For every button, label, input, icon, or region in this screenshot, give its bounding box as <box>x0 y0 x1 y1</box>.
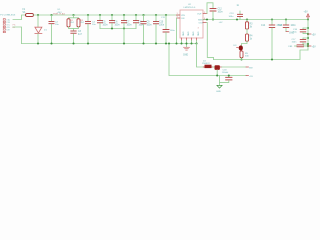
inductor L1 <box>215 65 220 70</box>
resistor R1 <box>67 19 70 27</box>
wire gnd rail drop to bottom <box>169 44 246 76</box>
diode D2 <box>203 66 213 68</box>
wire pin1 to fuse <box>13 15 25 20</box>
svg-text:100n: 100n <box>115 25 121 27</box>
net label tap 2 <box>308 45 311 47</box>
capacitor C14 <box>271 20 273 25</box>
node C10 bottom junction <box>155 42 157 44</box>
wire D2 anode <box>197 44 205 68</box>
svg-text:100n: 100n <box>147 25 153 27</box>
net label output rail <box>246 75 249 77</box>
node FB rail crossing junction <box>206 18 208 20</box>
node C17 tap junction <box>307 37 309 39</box>
node C16 bottom junction <box>307 33 309 35</box>
svg-text:OUT: OUT <box>197 13 202 15</box>
node C4 top junction <box>87 14 89 16</box>
wire to D1 <box>37 15 39 27</box>
+5V vertical wire <box>307 20 309 51</box>
wires GND pins to rail <box>182 41 197 44</box>
IC U2 pin FB <box>203 22 207 24</box>
connector P1 pin 3 <box>3 24 15 27</box>
connector P1 pin 4 <box>3 26 15 29</box>
svg-text:100n: 100n <box>292 41 298 43</box>
wire resistor pair join <box>69 27 79 31</box>
connector P1 pin 2 <box>3 21 10 24</box>
svg-text:C10: C10 <box>159 22 164 24</box>
node +5V rail junction <box>307 18 309 20</box>
node R pair top junction <box>72 14 74 16</box>
node C8 top junction <box>135 14 137 16</box>
node collector junctions <box>111 27 113 29</box>
svg-text:100uH: 100uH <box>222 72 229 74</box>
capacitor C2 <box>51 15 53 21</box>
node C4 bottom junction <box>87 42 89 44</box>
diode D1 <box>35 27 42 33</box>
capacitor C15 <box>285 20 287 25</box>
node C5 top junction <box>99 14 101 16</box>
ground symbol under rail <box>186 44 188 48</box>
capacitor C13 above rail <box>239 11 241 20</box>
node fuse-D1 junction <box>37 14 39 16</box>
svg-text:100n: 100n <box>218 12 224 14</box>
connector P1 pin 6 <box>3 31 5 32</box>
node R5 gnd junction <box>240 58 242 60</box>
fuse F1 <box>26 14 34 17</box>
svg-text:PWR_FLAG: PWR_FLAG <box>53 13 65 16</box>
node C13 rail junction <box>236 18 238 20</box>
capacitor C12 <box>210 9 216 11</box>
svg-text:5 E: 5 E <box>6 30 10 32</box>
node C14 rail junction <box>271 18 273 20</box>
svg-text:C15: C15 <box>278 25 283 27</box>
capacitor C4 <box>87 15 89 21</box>
node R3 rail junction <box>246 18 248 20</box>
node C12 rail junction <box>212 18 214 20</box>
node C3 bottom junction <box>72 42 74 44</box>
wire D1 to ground rail <box>37 34 39 44</box>
svg-text:5A: 5A <box>23 11 26 14</box>
wire boost cap loop <box>207 3 213 14</box>
wire to R3 <box>246 20 248 23</box>
svg-text:+5V: +5V <box>219 22 223 24</box>
svg-text:VIN: VIN <box>181 15 185 17</box>
node C16 tap junction <box>307 27 309 29</box>
node D1 ground junction <box>37 42 39 44</box>
svg-text:C12: C12 <box>218 9 223 11</box>
capacitor C17 <box>303 37 308 40</box>
node C9 bottom junction <box>142 42 144 44</box>
svg-text:100n: 100n <box>291 25 297 27</box>
IC U2 bottom pins GND <box>182 38 197 41</box>
capacitor C3 <box>71 31 76 33</box>
wire ON/OFF to ground <box>176 18 178 44</box>
capacitor C8 <box>135 15 137 20</box>
output ground rail y=59.5 <box>214 50 309 60</box>
svg-text:C14: C14 <box>261 25 266 27</box>
svg-text:ON: ON <box>181 18 185 20</box>
capacitor C9 <box>143 15 145 21</box>
wire switch node to net label <box>222 66 246 68</box>
resistor R5 <box>240 51 243 58</box>
node GND pin junctions <box>180 42 182 44</box>
wire cap collector <box>100 28 136 30</box>
node C7 top junction <box>123 14 125 16</box>
node C9 top junction <box>142 14 144 16</box>
node ON/OFF ground junction <box>175 42 177 44</box>
connector P1 pin 5 <box>3 29 10 32</box>
output rail wire y=19.5 <box>203 19 308 21</box>
resistor R4 <box>246 34 249 41</box>
ground branch <box>219 76 221 86</box>
wire R4 to LED <box>242 41 248 46</box>
svg-text:GND: GND <box>196 32 198 37</box>
node C11 bottom junction <box>165 42 167 44</box>
ground symbol bottom <box>217 85 222 88</box>
connector P1 pin 1 <box>3 19 10 22</box>
svg-text:100n: 100n <box>103 25 109 27</box>
svg-text:+5V: +5V <box>312 47 317 49</box>
node C17 bottom junction <box>307 43 309 45</box>
svg-text:GND: GND <box>186 32 188 37</box>
wire pin4 to ground rail <box>13 27 22 44</box>
IC U2 body <box>180 10 203 38</box>
svg-text:GND: GND <box>191 32 193 37</box>
node drop junction <box>168 42 170 44</box>
input rail wire y=15 <box>34 14 181 16</box>
LED D3 <box>239 45 243 50</box>
svg-text:100n: 100n <box>159 25 165 27</box>
node L1 rail junction <box>216 74 218 76</box>
svg-text:GND: GND <box>216 91 221 93</box>
svg-text:LM2576-5.0: LM2576-5.0 <box>184 7 196 9</box>
svg-text:GND: GND <box>181 32 183 37</box>
svg-text:100u: 100u <box>170 30 176 32</box>
svg-text:100n: 100n <box>229 16 235 18</box>
node C15 rail junction <box>285 18 287 20</box>
IC U2 pin ON/OFF <box>177 17 181 19</box>
net label GND stub <box>286 31 289 33</box>
net label mid <box>246 66 249 68</box>
resistor R3 <box>246 22 249 29</box>
IC U2 pin VIN <box>177 14 181 16</box>
svg-text:+5V: +5V <box>304 12 309 14</box>
capacitor C5 <box>99 15 101 20</box>
node C10 top junction <box>155 14 157 16</box>
node C2 bottom junction <box>50 42 52 44</box>
node C11 top junction <box>165 14 167 16</box>
wire resistor pair split <box>69 15 79 19</box>
wire R5 to gnd rail <box>241 58 243 60</box>
capacitor C16 <box>303 27 308 30</box>
node collector ground junction <box>123 42 125 44</box>
svg-text:100n: 100n <box>127 25 133 27</box>
capacitor C10 <box>155 15 157 21</box>
svg-text:SNS: SNS <box>198 19 203 21</box>
capacitor C11 <box>165 15 167 29</box>
capacitor C18 <box>228 76 230 77</box>
svg-text:+5V: +5V <box>312 35 317 37</box>
IC U2 pin OUT2 <box>203 19 206 21</box>
wire OUT drop to switch node <box>207 23 214 60</box>
node C6 top junction <box>111 14 113 16</box>
+5V power flag <box>307 17 309 20</box>
capacitor C6 <box>111 15 113 20</box>
wire R3-R4 <box>246 29 248 34</box>
wire L1 down to output rail <box>216 70 218 76</box>
wire D2 to L1 <box>213 66 215 68</box>
wire collector drop <box>123 29 125 44</box>
ground rail wire y=43.5 <box>22 43 197 45</box>
net label tap 1 <box>308 33 311 35</box>
IC U2 pin OUT <box>203 13 207 15</box>
svg-text:P1 CONN-SIL6: P1 CONN-SIL6 <box>0 14 16 16</box>
svg-text:GND: GND <box>183 55 188 57</box>
resistor R2 <box>77 19 80 27</box>
node C14 gnd junction <box>271 58 273 60</box>
svg-text:+5V: +5V <box>249 76 253 78</box>
capacitor C7 <box>123 15 125 20</box>
svg-text:OUT: OUT <box>199 22 204 24</box>
node C2 top junction <box>50 14 52 16</box>
